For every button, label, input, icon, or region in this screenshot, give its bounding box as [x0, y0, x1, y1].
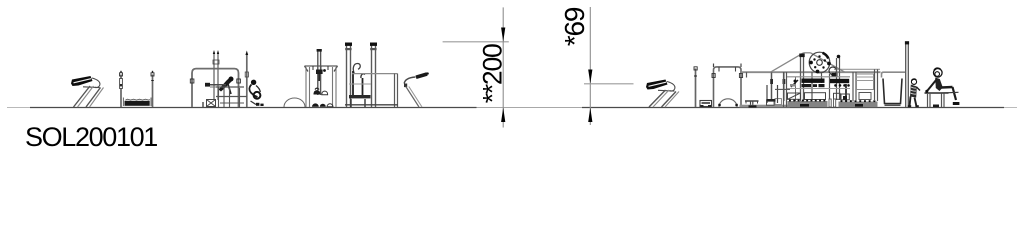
sit-up bench B legs	[649, 90, 679, 107]
second figure body and flywheel	[249, 85, 263, 107]
leg press base rail	[345, 104, 398, 106]
dimension 200 bottom arrow	[501, 108, 505, 123]
dimension 200 extension line top	[443, 41, 509, 43]
kettlebell pair mid	[314, 88, 328, 95]
chair frame on deck	[767, 85, 790, 103]
weight stack carriage	[316, 49, 326, 95]
ground extension gray segment	[477, 107, 583, 109]
machine body verticals	[784, 58, 847, 107]
tall pole	[905, 41, 909, 107]
dark equipment band right	[830, 79, 850, 87]
wheel crank hub	[829, 55, 840, 77]
machine box 3	[834, 93, 850, 100]
picnic table top	[745, 101, 759, 106]
left bracket marks	[790, 80, 798, 88]
leg press frame front posts	[345, 43, 352, 108]
svg-text:**200: **200	[478, 44, 508, 103]
pull-up station top bar	[192, 69, 239, 79]
low step platform	[123, 98, 151, 107]
dimension 200 vertical line	[502, 7, 504, 127]
pull-up station center pole	[213, 50, 219, 100]
leg press cross bar	[349, 83, 371, 85]
sit-up bench B board	[646, 80, 668, 90]
child figure body	[908, 85, 920, 108]
handrail to tall pole	[882, 72, 906, 77]
dimension 200 top arrow	[501, 28, 505, 42]
leg press strap left	[352, 71, 354, 96]
adult figure helmet	[934, 68, 943, 77]
dimension 69 bottom arrow	[588, 108, 592, 123]
ground line right fade-out	[1004, 107, 1017, 109]
drawing code label SOL200101	[25, 122, 157, 153]
dimension 69 top arrow	[588, 70, 592, 84]
rower seat figure torso	[219, 77, 234, 95]
machine box 2	[805, 93, 826, 100]
second figure head	[251, 80, 256, 85]
big wheel	[809, 52, 831, 83]
secondary rail	[834, 68, 880, 70]
dimension 200 text	[478, 44, 508, 103]
pull-up station left leg	[190, 78, 194, 107]
rower footstep	[203, 100, 216, 108]
ground line right dark segment	[582, 107, 1004, 109]
dark equipment band left	[802, 79, 825, 88]
sit-up bench A board	[71, 76, 93, 86]
small stool	[700, 101, 712, 108]
rower frame	[216, 87, 247, 107]
twister stem	[404, 77, 416, 87]
long top rail	[741, 72, 881, 77]
kettlebells on ground	[312, 103, 333, 106]
rower handle arm	[205, 83, 226, 87]
arch left diagonal	[770, 53, 804, 73]
table right	[925, 93, 949, 107]
deck platform C dotted	[839, 100, 878, 107]
child figure head	[911, 79, 916, 84]
right station bar posts	[712, 64, 743, 108]
gray framework lines	[787, 77, 850, 89]
chair legs over deck	[767, 99, 782, 106]
twister legs	[406, 87, 422, 108]
machine box 1	[788, 93, 801, 99]
svg-text:*69: *69	[559, 7, 590, 46]
right panel verticals	[853, 69, 878, 101]
deck platform B dotted	[788, 100, 828, 108]
right station post solo	[694, 67, 697, 107]
leg press strap right	[361, 74, 365, 96]
ground line light lead-in	[7, 107, 32, 109]
adult figure torso	[935, 78, 943, 92]
twister seat top	[416, 72, 429, 79]
pull-up station rear pole	[245, 51, 248, 108]
adult figure legs	[941, 87, 959, 105]
support post right pair	[783, 72, 786, 101]
leg press handle bar	[352, 74, 398, 107]
dimension 69 vertical line	[589, 7, 591, 125]
weight station posts right pair	[333, 67, 337, 107]
deck gap posts	[829, 99, 836, 107]
bucket seat	[883, 79, 902, 106]
sit-up bench A legs	[74, 86, 104, 107]
right panel box	[857, 74, 874, 100]
arch apex and right diagonal	[804, 53, 845, 72]
ground line left dark segment	[30, 107, 477, 109]
dimension 69 extension line	[584, 83, 634, 85]
deck platform A	[740, 105, 791, 108]
dimension 69 text	[559, 7, 590, 46]
leg press frame rear posts	[370, 43, 377, 108]
weight station posts left pair	[306, 67, 310, 107]
balance dome right	[718, 99, 738, 107]
weight station top frame	[305, 66, 338, 72]
leg press hook curl	[353, 64, 360, 75]
pull-up station right leg	[237, 78, 241, 107]
sit-up bench B frame	[658, 82, 675, 92]
low step station post 1	[120, 71, 123, 107]
sit-up bench A frame	[83, 78, 100, 88]
arch posts	[799, 54, 804, 108]
adult figure arm	[925, 80, 936, 93]
leg press seat bench	[349, 95, 371, 107]
support posts pair left of arch	[770, 72, 773, 101]
balance dome left	[284, 98, 305, 107]
low step station post 2	[151, 71, 154, 107]
